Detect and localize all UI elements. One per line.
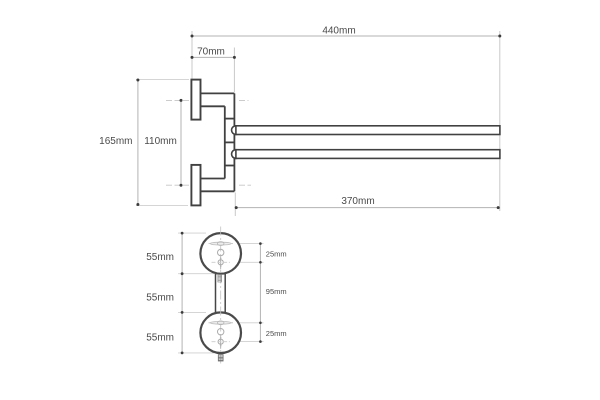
svg-text:370mm: 370mm xyxy=(341,196,374,207)
svg-text:70mm: 70mm xyxy=(197,46,225,57)
svg-text:440mm: 440mm xyxy=(322,26,355,37)
top arm top edge xyxy=(201,92,235,94)
svg-text:55mm: 55mm xyxy=(146,292,174,303)
extension line right of 440mm / 370mm xyxy=(499,31,501,211)
extension 165mm top xyxy=(136,79,189,81)
svg-text:25mm: 25mm xyxy=(266,329,287,338)
mounting arm / body outline xyxy=(201,93,235,191)
swivel bar 2 rounded cap xyxy=(232,150,241,159)
body right edge xyxy=(233,93,235,191)
centerline top plate xyxy=(166,99,191,101)
svg-text:165mm: 165mm xyxy=(99,136,132,147)
dimension 165mm xyxy=(99,79,139,207)
screw in connecting bar xyxy=(218,275,222,282)
svg-text:25mm: 25mm xyxy=(266,249,287,258)
bottom arm bottom edge xyxy=(201,190,235,192)
svg-text:55mm: 55mm xyxy=(146,333,174,344)
top rosette: middle circle xyxy=(218,249,224,255)
top arm bottom edge xyxy=(201,105,225,107)
extension lines for 55mm chain xyxy=(178,232,206,234)
extension line left of 440mm xyxy=(191,31,193,79)
extension 165mm bottom xyxy=(136,204,188,206)
top rosette: slot lens xyxy=(209,242,234,246)
extension lines for right chain xyxy=(233,243,264,245)
svg-text:55mm: 55mm xyxy=(146,252,174,263)
body division 3 xyxy=(225,165,235,167)
bottom rosette: screw circle xyxy=(212,336,230,349)
extension line left of 370mm xyxy=(234,193,236,217)
dimension chain 55mm left xyxy=(146,232,183,355)
swivel bar 1 xyxy=(236,126,500,135)
wall plate bottom xyxy=(191,165,200,206)
wall plate top xyxy=(191,80,200,120)
dimension 440mm xyxy=(191,26,502,38)
dimension 70mm xyxy=(191,46,236,59)
swivel bar 2 xyxy=(236,150,500,159)
svg-text:110mm: 110mm xyxy=(144,136,177,147)
dimension chain right 25/95/25 xyxy=(259,242,287,343)
vertical centerline xyxy=(220,227,222,367)
swivel bar 1 rounded cap xyxy=(232,126,241,135)
body division 2 xyxy=(225,141,235,143)
bottom arm top edge xyxy=(201,178,225,180)
svg-text:95mm: 95mm xyxy=(266,287,287,296)
bottom rosette: middle circle xyxy=(218,329,224,335)
connecting bar xyxy=(216,273,226,314)
body left edge xyxy=(224,106,226,178)
body division 1 xyxy=(225,118,235,120)
dimension 370mm xyxy=(235,196,500,209)
dimension 110mm xyxy=(144,99,182,187)
screw below bottom rosette xyxy=(218,355,223,361)
top rosette: screw circle xyxy=(212,256,230,269)
extension line right of 70mm xyxy=(233,48,235,93)
centerline bottom plate xyxy=(166,184,191,186)
top rosette circle xyxy=(200,233,241,274)
bottom rosette circle xyxy=(200,312,241,353)
bottom rosette: slot lens xyxy=(209,321,234,325)
